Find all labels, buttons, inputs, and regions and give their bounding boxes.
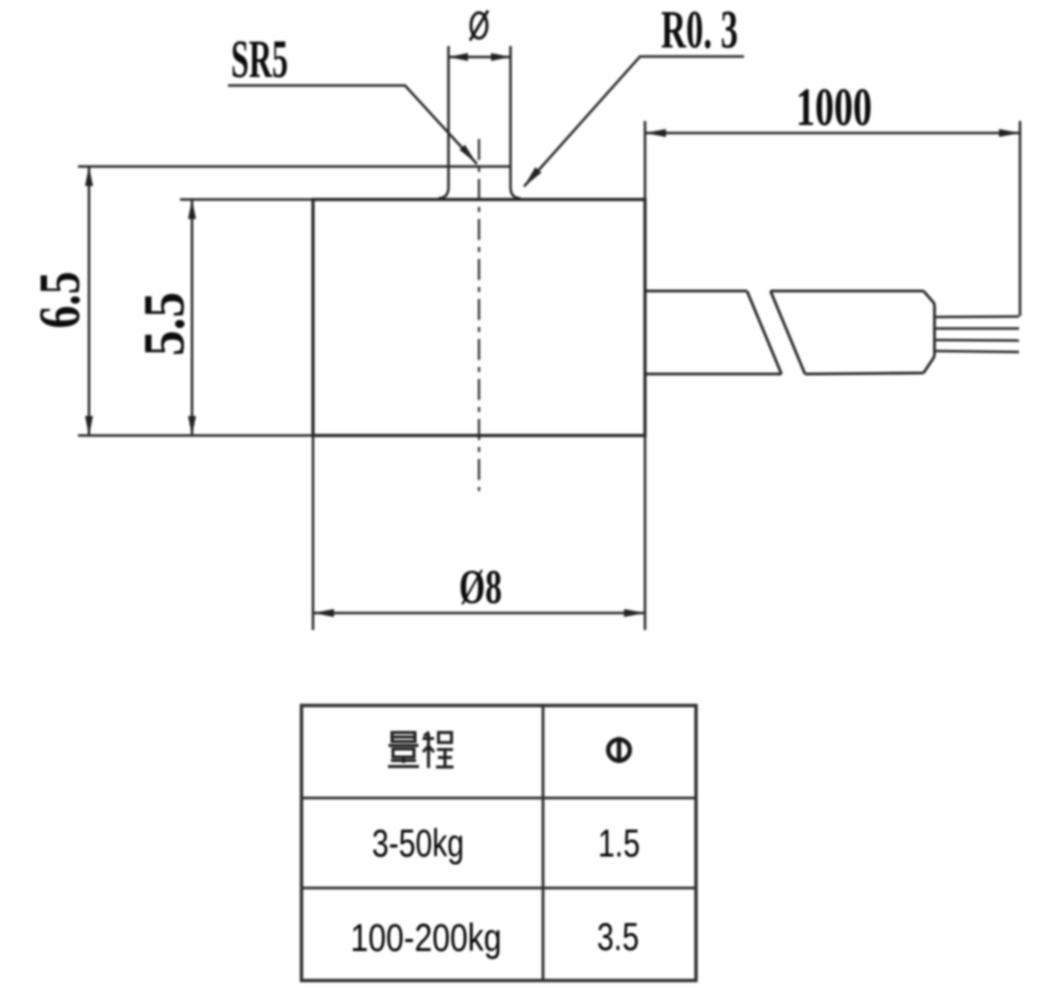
- svg-text:6.5: 6.5: [27, 272, 92, 329]
- svg-text:100-200kg: 100-200kg: [351, 917, 502, 960]
- svg-text:3.5: 3.5: [597, 916, 639, 959]
- svg-text:5.5: 5.5: [132, 292, 197, 356]
- svg-text:1000: 1000: [796, 77, 872, 137]
- svg-text:3-50kg: 3-50kg: [372, 823, 464, 866]
- svg-text:Ø8: Ø8: [459, 559, 502, 614]
- svg-text:R0. 3: R0. 3: [661, 0, 738, 60]
- svg-text:SR5: SR5: [231, 29, 288, 89]
- svg-text:1.5: 1.5: [598, 823, 640, 866]
